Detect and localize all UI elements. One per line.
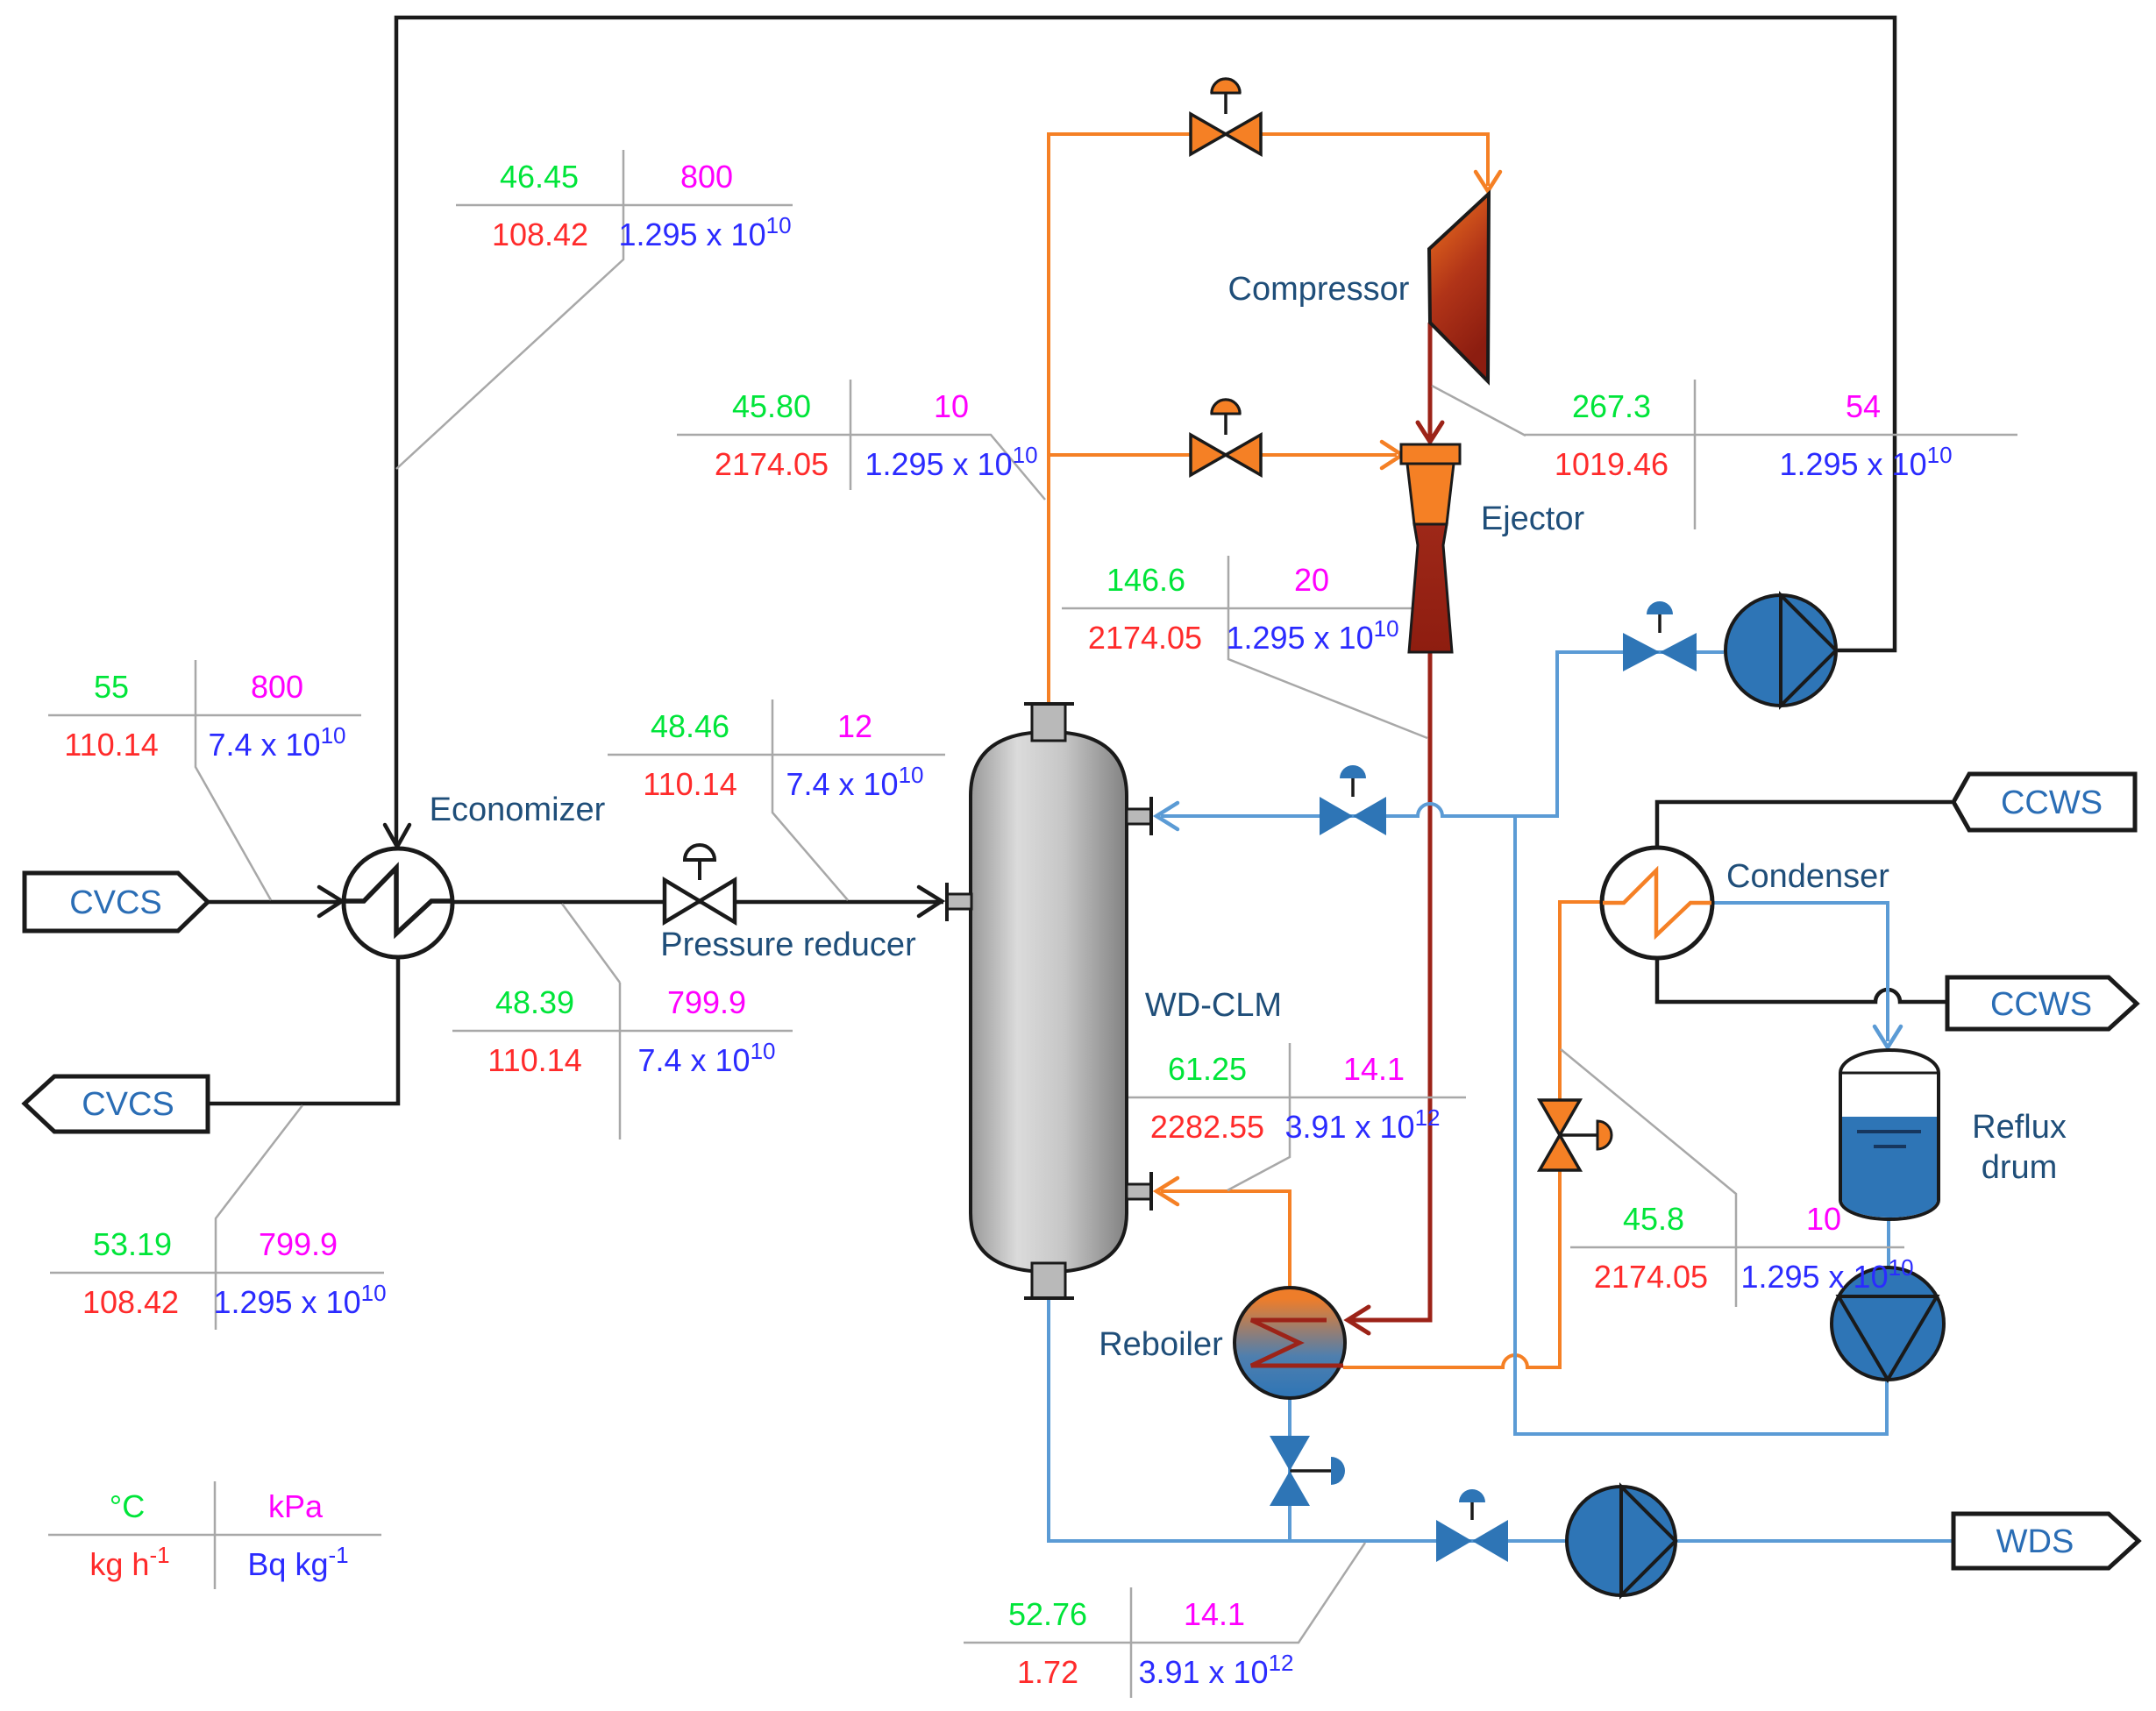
svg-text:800: 800: [251, 669, 303, 705]
svg-text:55: 55: [94, 669, 129, 705]
svg-text:108.42: 108.42: [82, 1284, 179, 1320]
svg-text:110.14: 110.14: [643, 766, 736, 802]
svg-text:3.91 x 1012: 3.91 x 1012: [1284, 1104, 1440, 1145]
svg-text:Pressure reducer: Pressure reducer: [660, 926, 916, 963]
svg-text:Reflux: Reflux: [1972, 1109, 2067, 1146]
svg-text:°C: °C: [110, 1488, 145, 1524]
svg-text:2174.05: 2174.05: [1594, 1259, 1708, 1295]
svg-text:14.1: 14.1: [1343, 1051, 1405, 1087]
svg-text:Ejector: Ejector: [1481, 501, 1585, 537]
svg-text:46.45: 46.45: [500, 159, 579, 195]
svg-text:1019.46: 1019.46: [1555, 446, 1669, 482]
svg-text:48.39: 48.39: [495, 984, 574, 1020]
svg-text:Economizer: Economizer: [430, 792, 606, 828]
svg-text:1.295 x 1010: 1.295 x 1010: [1779, 442, 1952, 482]
svg-text:2282.55: 2282.55: [1150, 1109, 1264, 1145]
svg-text:108.42: 108.42: [492, 217, 588, 252]
svg-text:1.295 x 1010: 1.295 x 1010: [1740, 1254, 1913, 1295]
svg-text:267.3: 267.3: [1572, 388, 1651, 424]
svg-text:1.72: 1.72: [1017, 1654, 1078, 1690]
svg-text:7.4 x 1010: 7.4 x 1010: [637, 1038, 775, 1078]
svg-text:Compressor: Compressor: [1228, 271, 1410, 308]
svg-text:110.14: 110.14: [487, 1042, 581, 1078]
svg-text:kPa: kPa: [268, 1488, 324, 1524]
svg-text:kg h-1: kg h-1: [89, 1542, 169, 1582]
svg-text:2174.05: 2174.05: [715, 446, 829, 482]
svg-text:Bq kg-1: Bq kg-1: [247, 1542, 348, 1582]
svg-text:14.1: 14.1: [1184, 1596, 1245, 1632]
svg-text:10: 10: [934, 388, 969, 424]
svg-text:drum: drum: [1982, 1149, 2058, 1186]
svg-text:12: 12: [837, 708, 872, 744]
svg-text:45.8: 45.8: [1623, 1201, 1684, 1237]
svg-text:Reboiler: Reboiler: [1099, 1326, 1223, 1363]
svg-text:CCWS: CCWS: [1990, 986, 2092, 1023]
svg-text:54: 54: [1846, 388, 1881, 424]
svg-text:WD-CLM: WD-CLM: [1145, 987, 1282, 1024]
svg-text:1.295 x 1010: 1.295 x 1010: [1226, 615, 1398, 656]
svg-text:2174.05: 2174.05: [1088, 620, 1202, 656]
svg-text:Condenser: Condenser: [1726, 858, 1889, 895]
svg-text:3.91 x 1012: 3.91 x 1012: [1138, 1650, 1293, 1690]
svg-text:53.19: 53.19: [93, 1226, 172, 1262]
svg-text:799.9: 799.9: [667, 984, 746, 1020]
svg-text:1.295 x 1010: 1.295 x 1010: [618, 212, 791, 252]
svg-text:CVCS: CVCS: [82, 1086, 174, 1123]
svg-text:799.9: 799.9: [259, 1226, 338, 1262]
svg-text:52.76: 52.76: [1008, 1596, 1087, 1632]
svg-text:61.25: 61.25: [1168, 1051, 1247, 1087]
svg-text:48.46: 48.46: [651, 708, 729, 744]
svg-text:7.4 x 1010: 7.4 x 1010: [786, 762, 923, 802]
svg-text:1.295 x 1010: 1.295 x 1010: [865, 442, 1037, 482]
svg-text:CVCS: CVCS: [69, 884, 162, 921]
svg-text:800: 800: [680, 159, 733, 195]
svg-text:1.295 x 1010: 1.295 x 1010: [213, 1280, 386, 1320]
svg-text:20: 20: [1294, 562, 1329, 598]
svg-text:7.4 x 1010: 7.4 x 1010: [208, 722, 345, 763]
svg-text:WDS: WDS: [1996, 1523, 2074, 1560]
svg-text:146.6: 146.6: [1106, 562, 1185, 598]
svg-text:CCWS: CCWS: [2001, 785, 2103, 821]
svg-text:10: 10: [1806, 1201, 1841, 1237]
svg-text:110.14: 110.14: [64, 727, 158, 763]
svg-text:45.80: 45.80: [732, 388, 811, 424]
